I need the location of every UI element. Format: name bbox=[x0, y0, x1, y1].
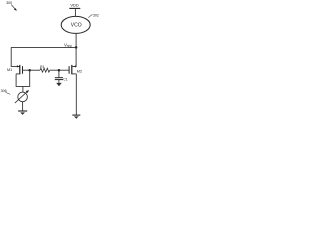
capacitor C1 bbox=[55, 70, 63, 83]
wire: current source to ground bbox=[22, 102, 24, 111]
transistor M1 (native NMOS, mirrored: gate on right) bbox=[16, 65, 30, 74]
wire: M1 source drop bbox=[16, 70, 30, 86]
label 306 leader bbox=[1, 89, 11, 94]
wire: M2 drain stem from Vreg node bbox=[72, 47, 76, 66]
wire: M2 source drop bbox=[75, 74, 77, 115]
power VDD symbol bbox=[69, 3, 80, 17]
svg-text:VDD: VDD bbox=[70, 3, 79, 8]
transistor M2 (native NMOS, gate on left) bbox=[69, 65, 76, 74]
node M1 gate / R1 junction dot bbox=[28, 69, 31, 72]
wire: left drop to M1 drain bbox=[11, 47, 20, 66]
wire: R1 left segment bbox=[30, 69, 40, 71]
wire: Vreg horizontal bbox=[11, 46, 76, 48]
svg-text:R1: R1 bbox=[40, 65, 44, 69]
ground (M2) bbox=[72, 115, 80, 119]
svg-text:VCO: VCO bbox=[71, 23, 82, 29]
wire: VCO bottom stem to Vreg node bbox=[75, 33, 77, 47]
current source (variable) bbox=[15, 90, 29, 103]
svg-text:Vreg: Vreg bbox=[64, 43, 72, 49]
node Vreg (junction dot) bbox=[75, 46, 78, 49]
ground (C1) bbox=[56, 83, 62, 86]
svg-text:C1: C1 bbox=[63, 77, 67, 81]
svg-text:M2: M2 bbox=[77, 69, 82, 73]
node C1 junction dot bbox=[58, 69, 61, 72]
VCO block (oscillator) bbox=[61, 16, 90, 33]
svg-text:300: 300 bbox=[6, 1, 12, 5]
resistor R1 bbox=[40, 68, 50, 72]
label 302 leader bbox=[88, 13, 99, 17]
wire: R1 right segment to M2 gate bbox=[50, 69, 69, 71]
wire: stub to current source bbox=[22, 86, 24, 92]
svg-text:M1: M1 bbox=[7, 68, 12, 72]
ground (current source) bbox=[18, 111, 27, 115]
svg-text:302: 302 bbox=[93, 13, 99, 17]
figure label 300 bbox=[6, 1, 17, 11]
node M2 drain corner dot bbox=[74, 65, 76, 67]
